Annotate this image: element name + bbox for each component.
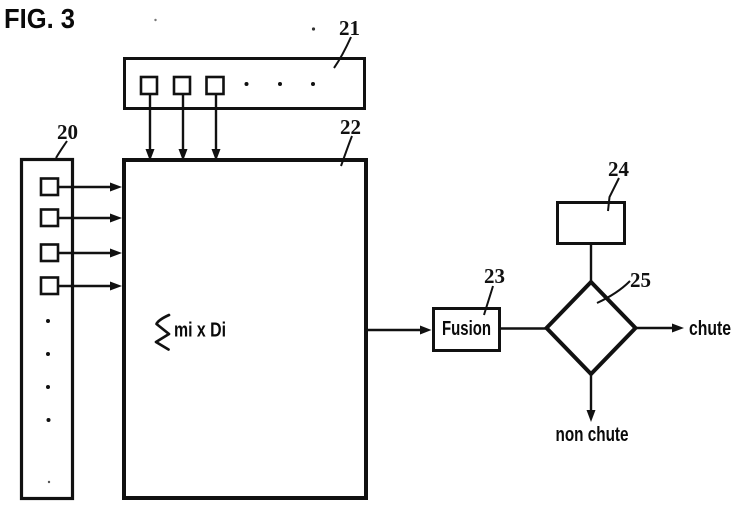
- stray scan dot near label 21: [312, 27, 315, 30]
- ellipsis dot 2 in box 21: [278, 82, 282, 86]
- leader line for 23: [484, 286, 493, 315]
- svg-text:Fusion: Fusion: [442, 318, 491, 340]
- svg-text:21: 21: [339, 16, 360, 40]
- sigma summation symbol: [156, 315, 169, 350]
- leader line for 24: [608, 178, 619, 211]
- wire from D4 to box 22: [58, 285, 115, 287]
- leader line for 22: [341, 136, 352, 166]
- arrowhead into Fusion box: [420, 326, 432, 335]
- sensor square S1 in box 21: [141, 77, 157, 94]
- leader line for 25: [597, 281, 630, 303]
- ellipsis dot 3 in box 20: [46, 385, 50, 389]
- ellipsis dot 1 in box 21: [245, 82, 249, 86]
- arrowhead into box 22 from D1: [110, 183, 122, 192]
- arrowhead into box 22 from D4: [110, 282, 122, 291]
- detector square D3 in box 20: [41, 245, 58, 262]
- stray scan dot near top: [154, 19, 156, 21]
- svg-text:chute: chute: [689, 318, 731, 340]
- ellipsis dot 2 in box 20: [46, 352, 50, 356]
- arrowhead into box 22 from S2: [179, 149, 188, 161]
- box 21: [125, 59, 365, 109]
- wire from diamond down to non chute: [590, 375, 592, 416]
- diamond decision 25: [547, 282, 636, 374]
- wire from D2 to box 22: [58, 217, 115, 219]
- svg-text:25: 25: [630, 268, 651, 292]
- svg-text:20: 20: [57, 120, 78, 144]
- wire from S3 down to box 22: [215, 94, 217, 153]
- box 22: [124, 160, 366, 498]
- svg-text:23: 23: [484, 264, 505, 288]
- arrowhead into box 22 from D3: [110, 249, 122, 258]
- svg-text:mi x Di: mi x Di: [174, 320, 226, 342]
- box 24: [558, 203, 625, 244]
- wire from D1 to box 22: [58, 186, 115, 188]
- leader line for 21: [334, 37, 351, 68]
- wire from box 22 to Fusion box: [368, 329, 424, 331]
- detector square D2 in box 20: [41, 210, 58, 227]
- svg-text:24: 24: [608, 157, 630, 181]
- svg-text:22: 22: [340, 115, 361, 139]
- ellipsis dot 4 in box 20: [47, 418, 51, 422]
- sensor square S3 in box 21: [207, 77, 224, 94]
- box 23 Fusion: [434, 309, 500, 351]
- leader line for 20: [56, 141, 67, 158]
- wire from diamond to chute: [636, 327, 678, 329]
- wire from box 24 down to diamond 25: [590, 244, 592, 283]
- ellipsis dot 3 in box 21: [311, 82, 315, 86]
- detector square D1 in box 20: [41, 179, 58, 196]
- faint dot in box 20: [48, 481, 50, 483]
- wire from Fusion to diamond 25: [500, 327, 548, 329]
- box 20: [22, 160, 73, 499]
- svg-text:FIG. 3: FIG. 3: [4, 3, 75, 34]
- svg-text:non chute: non chute: [556, 424, 629, 446]
- detector square D4 in box 20: [41, 278, 58, 295]
- sensor square S2 in box 21: [174, 77, 190, 94]
- arrowhead into box 22 from D2: [110, 214, 122, 223]
- wire from S2 down to box 22: [182, 94, 184, 153]
- arrowhead into box 22 from S3: [212, 149, 221, 161]
- arrowhead into box 22 from S1: [146, 149, 155, 161]
- wire from D3 to box 22: [58, 252, 115, 254]
- ellipsis dot 1 in box 20: [46, 319, 50, 323]
- arrowhead non chute: [587, 410, 596, 422]
- arrowhead chute: [672, 324, 684, 333]
- wire from S1 down to box 22: [149, 94, 151, 153]
